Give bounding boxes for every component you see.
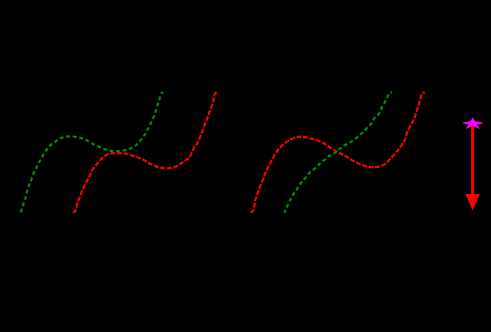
left plot: red dashed potential curve V2 xyxy=(73,93,217,213)
magenta star marker xyxy=(463,118,482,128)
left plot: green dashed potential curve V1 xyxy=(21,92,163,212)
red arrowhead xyxy=(465,194,479,211)
right plot: green dashed potential curve V1 xyxy=(284,92,392,212)
right plot: red dashed potential curve V2 xyxy=(250,93,425,213)
red downward arrow shaft xyxy=(471,126,474,197)
